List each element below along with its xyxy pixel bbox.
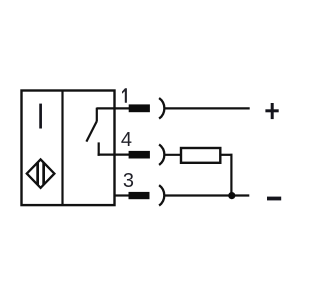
label pin 1: [122, 88, 127, 102]
pin 1 terminal: [129, 104, 150, 112]
wire pin4 (middle output wire inside body to pin): [98, 154, 130, 156]
plus terminal: [265, 103, 278, 119]
connector arc pin1: [159, 98, 164, 119]
junction node: [228, 192, 235, 199]
wire - supply (pin3 to minus): [164, 194, 249, 196]
divider wall: [61, 91, 63, 206]
pin 3 terminal: [129, 192, 150, 199]
wire + supply (pin1 to plus): [164, 107, 250, 109]
wire pin3 (bottom output wire to pin): [114, 194, 130, 196]
connector arc pin4: [159, 144, 164, 165]
wire load to corner: [220, 154, 233, 156]
wire pin1 (top output wire inside body to pin): [97, 107, 130, 109]
svg-text:4: 4: [121, 129, 132, 151]
svg-text:3: 3: [123, 170, 134, 192]
minus terminal: [267, 197, 281, 201]
diamond inner bars: [36, 158, 45, 190]
switch top stub: [96, 108, 98, 122]
wire pin4 to load: [164, 154, 181, 156]
pin 4 terminal: [129, 151, 150, 159]
wire load drop: [230, 154, 232, 196]
load resistor: [181, 148, 220, 163]
I bar (sensing element mark): [39, 104, 42, 129]
diamond (inductive proximity symbol): [27, 159, 55, 188]
switch bottom stub: [98, 142, 100, 155]
switch blade: [86, 121, 96, 141]
connector arc pin3: [159, 185, 164, 205]
sensor body rectangle: [22, 91, 115, 206]
